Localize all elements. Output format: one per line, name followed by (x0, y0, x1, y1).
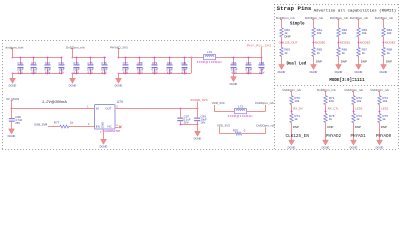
svg-text:C68: C68 (259, 61, 265, 65)
ground bank1 (9, 77, 17, 88)
capacitor C66 (231, 57, 238, 75)
wire bank3 right drop (191, 57, 193, 74)
svg-text:1k: 1k (362, 51, 366, 55)
strap column MODE0 (R61/R65) (305, 16, 326, 74)
svg-text:DNP: DNP (361, 59, 367, 63)
svg-text:R77: R77 (54, 121, 60, 125)
svg-text:IN: IN (96, 107, 99, 111)
strap net label CLK125_OUT (279, 41, 298, 45)
svg-text:25V: 25V (184, 120, 189, 124)
svg-text:C77: C77 (123, 61, 129, 65)
wire bank3 bottom rail (118, 73, 191, 75)
wire pll bottom rail (234, 73, 262, 75)
note Simple (290, 22, 305, 27)
U70 pin text IN (96, 107, 99, 111)
capacitor C68 (259, 57, 265, 75)
svg-text:C80: C80 (167, 61, 173, 65)
svg-text:C73: C73 (59, 61, 65, 65)
svg-text:1k: 1k (382, 117, 386, 121)
svg-text:10k: 10k (329, 99, 334, 103)
wire L72 right (247, 105, 266, 112)
svg-text:C66: C66 (231, 61, 237, 65)
svg-text:DGND: DGND (322, 145, 330, 149)
capacitor C77 (122, 57, 129, 75)
wire bank2 drop (72, 49, 74, 58)
note 1..2V@300mA (42, 100, 67, 104)
svg-text:DGND: DGND (310, 70, 318, 74)
svg-text:10k: 10k (382, 99, 387, 103)
svg-text:DGND: DGND (376, 145, 384, 149)
svg-text:avddpm_buh: avddpm_buh (6, 45, 24, 49)
svg-text:DvDDpm_rvb: DvDDpm_rvb (276, 16, 295, 20)
wire bank3 top rail (119, 57, 192, 59)
svg-text:PHYAD2: PHYAD2 (326, 135, 342, 139)
frame strap-box bottom border (274, 85, 398, 87)
capacitor C71 (31, 57, 38, 75)
wire bank2 bottom rail (72, 73, 106, 75)
svg-text:PHYAD1: PHYAD1 (351, 135, 367, 139)
power label output 3V3 (190, 98, 207, 102)
frame top-right border (274, 4, 398, 6)
capacitor C81 (181, 57, 187, 75)
wire R70 right (242, 127, 266, 133)
wire C97 drop (180, 109, 182, 118)
svg-text:SC189ZSKTRT: SC189ZSKTRT (103, 129, 121, 133)
svg-text:Advertise all capabilities (RG: Advertise all capabilities (RGMII) (314, 8, 397, 13)
svg-text:MODE3: MODE3 (385, 41, 396, 45)
svg-text:〉: 〉 (46, 122, 49, 126)
svg-text:1k: 1k (356, 117, 360, 121)
net label VDD_3V3 row1 (212, 101, 225, 105)
svg-text:1k: 1k (387, 51, 391, 55)
svg-text:C81: C81 (181, 61, 187, 65)
svg-text:DNP: DNP (381, 125, 387, 129)
U70 part number (103, 129, 121, 133)
svg-text:DGND: DGND (100, 145, 108, 149)
svg-text:4: 4 (116, 123, 118, 127)
wire bank1 top rail (12, 57, 62, 59)
svg-text:1k: 1k (284, 51, 288, 55)
svg-text:600R@100MHz: 600R@100MHz (197, 60, 223, 64)
frame top-left border (2, 40, 274, 42)
wire EN right (69, 122, 95, 127)
svg-text:C71: C71 (31, 61, 37, 65)
U70 pin text OUT (105, 107, 111, 111)
svg-text:5: 5 (116, 104, 118, 108)
power label PHY_PLL_3V3 (247, 43, 271, 47)
title Strap Pins (277, 5, 312, 12)
note Dual Led (287, 61, 307, 66)
svg-text:0: 0 (244, 129, 246, 133)
svg-text:DNP: DNP (293, 125, 299, 129)
ground pll group (230, 75, 238, 86)
power label 3V_MAIN (6, 97, 19, 101)
frame right border (398, 4, 400, 149)
svg-text:LED2: LED2 (355, 107, 363, 111)
U70 NC stub (115, 126, 122, 129)
U70 pin text EN (96, 125, 100, 129)
capacitor C70 (17, 57, 24, 75)
wire output gnd drop (197, 124, 199, 129)
svg-text:1k: 1k (317, 51, 321, 55)
svg-text:DGND: DGND (288, 145, 296, 149)
svg-text:PHYAD0: PHYAD0 (376, 135, 392, 139)
resistor R77 (54, 121, 74, 128)
svg-text:Simple: Simple (290, 22, 305, 27)
svg-text:DNP: DNP (316, 59, 322, 63)
svg-text:16V: 16V (200, 120, 205, 124)
capacitor C99 output (194, 114, 207, 124)
svg-text:10k: 10k (317, 31, 322, 35)
strap column MODE2 (R63/R67) (350, 16, 371, 74)
svg-text:DvDDpm_rvb: DvDDpm_rvb (255, 101, 274, 105)
svg-text:DvDDpm_rvb: DvDDpm_rvb (256, 123, 275, 127)
svg-text:DNP: DNP (341, 59, 347, 63)
ground bank2 (69, 77, 77, 88)
wire bank1 bottom rail (12, 73, 62, 75)
svg-text:1k: 1k (342, 51, 346, 55)
U70 pin text GND (101, 122, 105, 128)
frame left border (2, 40, 4, 149)
wire bank1 drop (12, 49, 14, 58)
capacitor C97 output (177, 114, 191, 124)
wire C98 drop (11, 109, 13, 119)
svg-text:C70: C70 (17, 61, 23, 65)
wire ldo input rail (12, 108, 95, 110)
svg-text:C67: C67 (246, 61, 252, 65)
ground bank3 (115, 77, 123, 88)
svg-text:DGND: DGND (380, 70, 388, 74)
wire L70 right (216, 57, 234, 59)
power label VDDA net bank3 (110, 45, 128, 49)
inductor L72 (228, 104, 254, 118)
svg-text:C78: C78 (137, 61, 143, 65)
svg-text:Strap Pins: Strap Pins (277, 5, 312, 12)
svg-text:DGND: DGND (194, 137, 202, 141)
svg-text:DGND: DGND (8, 134, 16, 138)
svg-text:LED1: LED1 (381, 107, 389, 111)
svg-text:DGND: DGND (230, 82, 238, 86)
svg-text:1k: 1k (294, 117, 298, 121)
svg-text:MODE0: MODE0 (315, 41, 326, 45)
svg-text:VDD_3V3: VDD_3V3 (212, 101, 225, 105)
U70 pin number 5 (116, 104, 118, 108)
svg-text:25V: 25V (15, 121, 20, 125)
wire R70 left (220, 127, 236, 134)
U70 pin number 2 (100, 130, 102, 134)
wire pll top rail (234, 57, 262, 59)
strap column MODE1 (R62/R66) (330, 16, 351, 74)
svg-text:EN: EN (96, 125, 100, 129)
power label DVDDH net bank2 (66, 45, 85, 49)
capacitor C98 input (9, 115, 23, 127)
wire output bottom rail (180, 124, 199, 126)
svg-text:MODE[3:0]=1111: MODE[3:0]=1111 (329, 78, 365, 83)
svg-text:DGND: DGND (9, 84, 17, 88)
svg-text:R70: R70 (233, 129, 239, 133)
svg-text:DNP: DNP (327, 125, 333, 129)
inductor L70 (197, 50, 223, 64)
svg-text:C79: C79 (152, 61, 158, 65)
svg-text:CLK125_EN: CLK125_EN (286, 134, 310, 139)
wire pll label drop (261, 47, 263, 58)
svg-text:1k: 1k (70, 121, 74, 125)
svg-text:VDD_3V3: VDD_3V3 (217, 123, 230, 127)
capacitor C79 (152, 57, 159, 75)
svg-text:Dual Led: Dual Led (287, 61, 307, 66)
svg-text:PHY_PLL_3V3: PHY_PLL_3V3 (247, 43, 271, 47)
wire bank2 gnd drop (72, 73, 74, 76)
wire out label drop (197, 102, 199, 109)
svg-text:10k: 10k (356, 99, 361, 103)
svg-text:3V3AD_3V3: 3V3AD_3V3 (190, 98, 207, 102)
net label DVDDH row2 (256, 123, 275, 127)
wire U70 gnd (103, 129, 105, 138)
wire L72 left (214, 105, 234, 112)
capacitor C74 (73, 57, 80, 75)
svg-text:DGND: DGND (350, 145, 358, 149)
op-amp U70 regulator box (95, 100, 124, 129)
svg-text:MODE2: MODE2 (360, 41, 371, 45)
wire L70 left (191, 57, 204, 59)
capacitor C72 (44, 57, 51, 75)
net label VDD_3V3 row2 (217, 123, 230, 127)
svg-text:MODE1: MODE1 (340, 41, 351, 45)
svg-text:DNP: DNP (386, 59, 392, 63)
svg-text:DvDDpm_rvb: DvDDpm_rvb (66, 45, 85, 49)
capacitor C75 (87, 57, 94, 75)
svg-text:10k: 10k (294, 99, 299, 103)
wire EN left (48, 126, 60, 128)
wire bank3 gnd drop (118, 73, 120, 76)
svg-text:C74: C74 (73, 61, 79, 65)
svg-text:10k: 10k (362, 31, 367, 35)
U70 pin number 4 (116, 123, 118, 127)
svg-text:RX_DV: RX_DV (293, 107, 303, 111)
svg-text:DGND: DGND (335, 70, 343, 74)
svg-text:DNP: DNP (355, 125, 361, 129)
svg-text:C76: C76 (101, 61, 107, 65)
svg-text:L72: L72 (238, 104, 243, 108)
capacitor C80 (166, 57, 173, 75)
capacitor C78 (137, 57, 144, 75)
svg-text:10k: 10k (342, 31, 347, 35)
svg-text:DNP: DNP (284, 34, 290, 38)
ground output caps (194, 130, 202, 141)
svg-text:C72: C72 (45, 61, 51, 65)
strap column MODE3 (R64/R68) (375, 16, 396, 74)
lower column CLK125_EN (R76/R74) (283, 88, 310, 149)
capacitor C73 (58, 57, 64, 75)
net label DVDDH row1 (255, 101, 274, 105)
note MODE value (329, 78, 365, 83)
wire 3vmain drop (11, 101, 13, 109)
wire C99 drop (197, 109, 199, 118)
svg-text:NC: NC (108, 125, 112, 129)
lower column PHYAD2 (R71/R78) (317, 88, 342, 149)
svg-text:1k: 1k (329, 117, 333, 121)
svg-text:RX_CTL: RX_CTL (328, 107, 339, 111)
capacitor C67 (246, 57, 253, 75)
wire ldo output rail (115, 108, 199, 110)
wire bank2 top rail (72, 57, 106, 59)
svg-text:L70: L70 (207, 50, 212, 54)
svg-text:DGND: DGND (69, 84, 77, 88)
resistor R70 (233, 129, 246, 135)
svg-text:3: 3 (88, 122, 90, 126)
lower column PHYAD1 (R72/R79) (345, 88, 367, 149)
U70 pin number 1 (87, 104, 89, 108)
svg-text:1..2V@300mA: 1..2V@300mA (42, 100, 67, 104)
note advertise capabilities (314, 8, 397, 13)
svg-text:DGND: DGND (115, 84, 123, 88)
ground U70 (100, 138, 108, 149)
svg-text:GND: GND (101, 122, 105, 128)
wire pll gnd drop (233, 73, 235, 75)
frame divider vertical (274, 4, 276, 149)
lower column PHYAD0 (R73/R75) (371, 88, 392, 149)
svg-text:10k: 10k (387, 31, 392, 35)
net port USB_5V6 (34, 122, 48, 126)
svg-text:CLK125_OUT: CLK125_OUT (279, 41, 298, 45)
capacitor C76 (101, 57, 108, 75)
frame bottom border (2, 149, 398, 151)
ground C98 (8, 127, 16, 138)
power label AVDDH net (6, 45, 24, 49)
svg-text:600R@100MHz: 600R@100MHz (228, 114, 254, 118)
svg-text:C75: C75 (87, 61, 93, 65)
strap column CLK125 (R60/R69) (276, 16, 295, 74)
wire bank3 drop (118, 49, 120, 58)
svg-text:DGND: DGND (278, 70, 286, 74)
wire bank1 gnd drop (12, 73, 14, 76)
U70 pin text NC (108, 125, 112, 129)
svg-text:1: 1 (87, 104, 89, 108)
svg-text:DGND: DGND (355, 70, 363, 74)
svg-text:OUT: OUT (105, 107, 111, 111)
